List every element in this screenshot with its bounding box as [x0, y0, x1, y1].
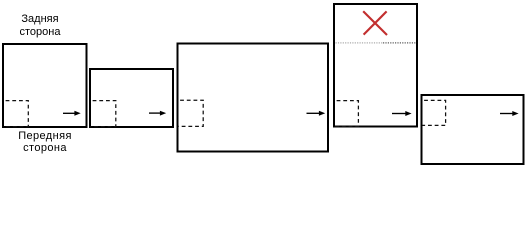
tray outline 3 (large)	[178, 44, 329, 152]
feed arrow 1	[63, 111, 81, 116]
feed arrow 4	[392, 111, 412, 116]
tray outline 4 (tall, not allowed)	[334, 4, 417, 127]
label: back side (Задняя сторона)	[0, 13, 90, 39]
card position 4 (dashed)	[335, 101, 359, 127]
label: front side (Передняя сторона)	[0, 130, 95, 154]
feed arrow 5	[500, 111, 519, 116]
fold/limit dotted line	[336, 42, 384, 44]
tray outline 2	[90, 69, 173, 127]
card position 5 (dashed)	[422, 100, 446, 125]
prohibition mark: red X	[363, 11, 387, 35]
feed arrow 2	[149, 111, 166, 116]
feed arrow 3	[307, 111, 326, 116]
card position 2 (dashed)	[91, 101, 116, 127]
card position 3 (dashed)	[178, 100, 203, 126]
tray outline 5	[422, 95, 524, 164]
tray outline 1 (square)	[3, 44, 87, 127]
card position 1 (dashed)	[4, 101, 29, 127]
